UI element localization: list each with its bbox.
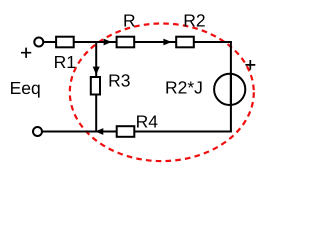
svg-text:R4: R4 (136, 112, 159, 132)
resistor R1 (56, 37, 74, 48)
wire R3 branch vertical (95, 42, 97, 132)
plus sign at top-left terminal (21, 48, 31, 58)
source U1 (circle) (214, 74, 245, 105)
wire top (44, 41, 232, 43)
resistor R3 (vertical) (91, 77, 100, 95)
svg-text:R3: R3 (108, 70, 130, 90)
wire right vertical (230, 42, 232, 132)
dashed ellipse (equivalent-circuit boundary) (70, 24, 254, 162)
svg-text:R: R (123, 11, 136, 31)
terminal bottom-left (33, 127, 42, 136)
arrow into R2 (164, 39, 171, 45)
svg-text:R2*J: R2*J (165, 77, 203, 97)
svg-text:R2: R2 (183, 11, 205, 31)
resistor R2 (176, 37, 194, 48)
svg-text:R1: R1 (54, 52, 76, 72)
svg-text:Eeq: Eeq (10, 78, 41, 98)
plus sign at source (245, 60, 255, 70)
arrow into R (104, 39, 111, 45)
arrow left at bottom node (96, 129, 103, 135)
terminal top-left (34, 38, 43, 47)
resistor R (117, 37, 135, 48)
wire bottom (43, 131, 232, 133)
arrow down into R3 (93, 67, 99, 74)
resistor R4 (117, 126, 135, 137)
wire through source (230, 73, 232, 106)
